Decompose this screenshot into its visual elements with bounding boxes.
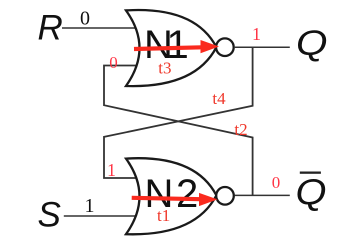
wire Q output — [235, 46, 290, 48]
svg-text:S: S — [38, 195, 61, 234]
svg-text:t4: t4 — [212, 89, 226, 108]
svg-text:t3: t3 — [158, 59, 171, 78]
svg-text:t1: t1 — [157, 206, 170, 225]
svg-text:1: 1 — [107, 160, 116, 180]
wire S input — [64, 215, 140, 217]
NOR gate N1 body — [126, 10, 216, 86]
overbar of Qbar — [300, 172, 321, 174]
NOR gate N1 inversion bubble — [216, 38, 234, 56]
wire R input — [62, 27, 140, 29]
wire Qbar output — [235, 194, 290, 196]
svg-text:0: 0 — [109, 53, 118, 72]
wire feedback Q to N2 upper input — [104, 47, 253, 178]
red arrow t1 in N2 — [132, 193, 218, 206]
red arrow t3 in N1 — [134, 40, 219, 53]
svg-text:t2: t2 — [234, 120, 247, 139]
NOR gate N2 body — [126, 158, 216, 234]
svg-text:Q: Q — [296, 172, 327, 213]
svg-text:0: 0 — [80, 8, 90, 30]
wire feedback Qbar to N1 lower input — [104, 66, 253, 196]
svg-text:N2: N2 — [145, 172, 199, 216]
NOR gate N2 inversion bubble — [216, 187, 234, 205]
svg-text:0: 0 — [272, 173, 281, 192]
svg-text:1: 1 — [252, 24, 261, 44]
svg-text:R: R — [38, 9, 63, 48]
svg-text:Q: Q — [296, 24, 328, 63]
svg-text:1: 1 — [85, 195, 95, 217]
